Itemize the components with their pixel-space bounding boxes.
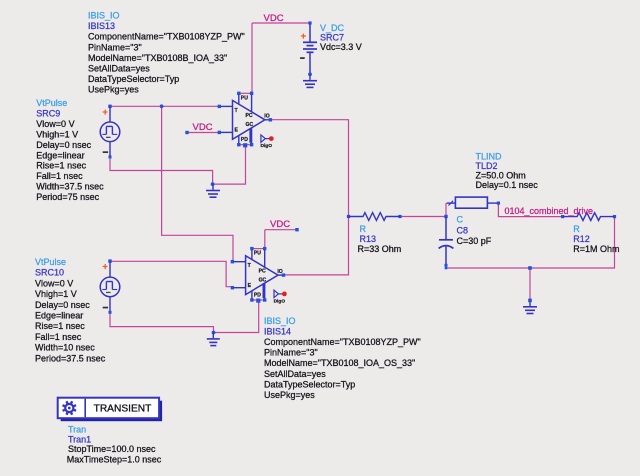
svg-text:Period=75 nsec: Period=75 nsec: [36, 192, 99, 202]
svg-text:SRC10: SRC10: [35, 268, 64, 278]
svg-text:PD: PD: [254, 293, 261, 299]
svg-text:TLIND: TLIND: [476, 152, 503, 162]
svg-text:UsePkg=yes: UsePkg=yes: [88, 84, 139, 94]
svg-text:Vlow=0 V: Vlow=0 V: [36, 119, 74, 129]
svg-text:IBIS_IO: IBIS_IO: [88, 11, 120, 21]
svg-text:Width=37.5 nsec: Width=37.5 nsec: [36, 182, 104, 192]
svg-text:PD: PD: [241, 137, 248, 143]
svg-text:Vhigh=1 V: Vhigh=1 V: [36, 129, 78, 139]
svg-text:VDC: VDC: [193, 122, 213, 133]
svg-text:PinName="3": PinName="3": [88, 42, 142, 52]
svg-text:IBIS14: IBIS14: [264, 327, 291, 337]
svg-text:Rise=1 nsec: Rise=1 nsec: [35, 321, 85, 331]
svg-text:VtPulse: VtPulse: [36, 98, 67, 108]
svg-text:IO: IO: [277, 269, 282, 275]
svg-text:Delay=0 nsec: Delay=0 nsec: [36, 140, 91, 150]
svg-text:R: R: [573, 224, 580, 234]
svg-text:C=30 pF: C=30 pF: [457, 236, 492, 246]
svg-text:SRC7: SRC7: [320, 33, 344, 43]
svg-text:MaxTimeStep=1.0 nsec: MaxTimeStep=1.0 nsec: [67, 454, 162, 464]
svg-text:+: +: [301, 31, 307, 42]
svg-text:Edge=linear: Edge=linear: [36, 150, 84, 160]
svg-text:+: +: [103, 107, 108, 117]
svg-text:Period=37.5 nsec: Period=37.5 nsec: [35, 353, 106, 363]
svg-text:Fall=1 nsec: Fall=1 nsec: [35, 332, 82, 342]
svg-text:IBIS13: IBIS13: [88, 21, 115, 31]
svg-text:DigO: DigO: [261, 143, 273, 149]
svg-text:SetAllData=yes: SetAllData=yes: [264, 369, 326, 379]
svg-text:R=1M Ohm: R=1M Ohm: [573, 244, 619, 254]
svg-text:UsePkg=yes: UsePkg=yes: [264, 390, 315, 400]
svg-text:Z=50.0 Ohm: Z=50.0 Ohm: [476, 171, 526, 181]
svg-text:GC: GC: [246, 122, 254, 128]
svg-text:DataTypeSelector=Typ: DataTypeSelector=Typ: [88, 74, 179, 84]
svg-text:IO: IO: [264, 114, 269, 120]
svg-text:SRC9: SRC9: [36, 108, 60, 118]
svg-text:VDC: VDC: [264, 13, 284, 24]
svg-text:ComponentName="TXB0108YZP_PW": ComponentName="TXB0108YZP_PW": [264, 337, 421, 347]
svg-text:VtPulse: VtPulse: [35, 257, 66, 267]
svg-text:TLD2: TLD2: [476, 161, 498, 171]
svg-text:Rise=1 nsec: Rise=1 nsec: [36, 161, 86, 171]
svg-text:R=33 Ohm: R=33 Ohm: [358, 244, 402, 254]
svg-text:PC: PC: [246, 113, 253, 119]
svg-text:Fall=1 nsec: Fall=1 nsec: [36, 171, 83, 181]
svg-text:Vdc=3.3 V: Vdc=3.3 V: [320, 42, 362, 52]
svg-text:TRANSIENT: TRANSIENT: [94, 404, 152, 415]
svg-text:E: E: [235, 128, 239, 134]
svg-text:Delay=0.1 nsec: Delay=0.1 nsec: [476, 180, 539, 190]
svg-text:PU: PU: [241, 95, 248, 101]
svg-text:ModelName="TXB0108B_IOA_33": ModelName="TXB0108B_IOA_33": [88, 53, 227, 63]
svg-text:StopTime=100.0 nsec: StopTime=100.0 nsec: [68, 444, 156, 454]
svg-text:Width=10 nsec: Width=10 nsec: [35, 343, 95, 353]
svg-text:ModelName="TXB0108_IOA_OS_33": ModelName="TXB0108_IOA_OS_33": [264, 358, 415, 368]
svg-text:SetAllData=yes: SetAllData=yes: [88, 63, 150, 73]
svg-text:R: R: [360, 224, 367, 234]
svg-text:Tran: Tran: [68, 424, 86, 434]
svg-text:DataTypeSelector=Typ: DataTypeSelector=Typ: [264, 379, 355, 389]
svg-text:R12: R12: [573, 234, 590, 244]
svg-text:E: E: [248, 283, 252, 289]
svg-text:Vhigh=1 V: Vhigh=1 V: [35, 289, 77, 299]
svg-text:ComponentName="TXB0108YZP_PW": ComponentName="TXB0108YZP_PW": [88, 32, 245, 42]
svg-text:PinName="3": PinName="3": [264, 348, 318, 358]
svg-text:Tran1: Tran1: [68, 434, 91, 444]
svg-text:PC: PC: [259, 269, 266, 275]
svg-text:+: +: [103, 262, 108, 272]
svg-text:VDC: VDC: [270, 219, 290, 230]
svg-text:PU: PU: [254, 251, 261, 257]
svg-text:DigO: DigO: [274, 298, 286, 304]
svg-text:V_DC: V_DC: [320, 23, 345, 33]
svg-text:C8: C8: [457, 225, 469, 235]
svg-text:R13: R13: [360, 234, 377, 244]
svg-text:IBIS_IO: IBIS_IO: [264, 316, 296, 326]
svg-text:0104_combined_drive: 0104_combined_drive: [505, 206, 594, 216]
svg-text:Edge=linear: Edge=linear: [35, 311, 83, 321]
svg-text:Delay=0 nsec: Delay=0 nsec: [35, 300, 90, 310]
svg-text:Vlow=0 V: Vlow=0 V: [35, 278, 73, 288]
svg-text:C: C: [457, 215, 464, 225]
svg-text:GC: GC: [259, 278, 267, 284]
